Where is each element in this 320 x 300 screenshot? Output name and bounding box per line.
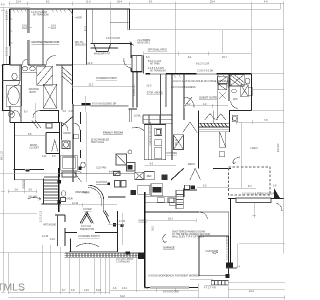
svg-text:+ HDR: + HDR — [65, 197, 73, 200]
svg-text:11-0: 11-0 — [86, 1, 91, 4]
kitchen lower counter band — [144, 197, 184, 203]
corner blobs — [226, 263, 233, 268]
patio dim line — [144, 52, 252, 54]
long site lines left — [0, 172, 59, 174]
island dim — [144, 164, 176, 166]
svg-text:4-1/2 X 4-1/2 W/ 4X4 SOLID NO: 4-1/2 X 4-1/2 W/ 4X4 SOLID NO CHASE WATE… — [173, 80, 231, 83]
svg-text:13-4: 13-4 — [122, 287, 127, 290]
tub — [8, 87, 19, 105]
svg-text:TRAY CLNG: TRAY CLNG — [91, 141, 105, 144]
svg-text:MASTER BEDROOM: MASTER BEDROOM — [32, 40, 60, 44]
svg-text:25-4: 25-4 — [210, 1, 215, 4]
interior wall bedroom/entry — [27, 9, 29, 33]
svg-text:COMPLETE ISLD W/ SINK: COMPLETE ISLD W/ SINK — [150, 121, 152, 146]
svg-text:5-10 1/2: 5-10 1/2 — [6, 11, 9, 20]
svg-text:W/ TRANSOM: W/ TRANSOM — [33, 13, 49, 16]
shelf marks top — [32, 120, 52, 128]
closet shelf hatch next to porch wall — [62, 65, 73, 110]
svg-text:21-4: 21-4 — [16, 1, 21, 4]
guest bath — [230, 75, 252, 97]
guest closet hatch band — [199, 123, 229, 127]
hall arcs — [60, 123, 68, 131]
mid counters — [135, 172, 144, 179]
svg-text:7-11: 7-11 — [144, 287, 149, 290]
svg-text:4-9 R/O: 4-9 R/O — [134, 89, 136, 96]
island — [144, 125, 165, 160]
svg-text:21-0: 21-0 — [88, 62, 93, 65]
svg-text:GARAGE: GARAGE — [163, 246, 175, 250]
left exterior wall with window — [9, 9, 11, 46]
svg-text:COVERED PORCH: COVERED PORCH — [96, 77, 117, 80]
wall segment to porch corner — [118, 43, 132, 45]
steps hatch — [67, 253, 142, 257]
linen hatch box — [37, 66, 53, 85]
svg-text:2-8 X 5-0 DH: 2-8 X 5-0 DH — [106, 37, 120, 40]
top wall with windows — [146, 73, 150, 75]
svg-text:2 X 3-0 X 6-8 FRENCH DOOR: 2 X 3-0 X 6-8 FRENCH DOOR — [242, 192, 275, 195]
svg-text:12-10: 12-10 — [72, 202, 79, 205]
shower hatch box — [43, 84, 57, 108]
svg-text:18-1: 18-1 — [168, 218, 173, 221]
left vertical dimension lines — [1, 7, 9, 292]
bedroom south wall with door gaps — [22, 59, 28, 65]
svg-text:ART NICHE: ART NICHE — [43, 223, 56, 226]
angled wall to garage — [171, 168, 184, 180]
sitting/porch divider dim — [73, 64, 131, 66]
top exterior wall — [9, 8, 130, 10]
svg-text:5 1/2 X 13: 5 1/2 X 13 — [40, 210, 43, 222]
svg-text:MASONRY F.P.: MASONRY F.P. — [94, 52, 111, 55]
svg-text:8-8 R/O: 8-8 R/O — [277, 143, 280, 152]
diagonal door — [62, 117, 73, 126]
svg-text:W/ TRANSOM: W/ TRANSOM — [150, 70, 166, 73]
left walls — [171, 74, 173, 160]
svg-text:W.I.C.: W.I.C. — [175, 138, 178, 145]
svg-text:10-8: 10-8 — [51, 27, 56, 30]
svg-text:4 T 2 T 4 R: 4 T 2 T 4 R — [204, 286, 216, 289]
svg-text:FOYER: FOYER — [83, 208, 92, 211]
steps right of garage — [211, 281, 228, 285]
dashed optional rect — [229, 167, 271, 195]
svg-text:2-10: 2-10 — [69, 110, 74, 113]
svg-text:24-2: 24-2 — [249, 290, 254, 293]
svg-text:2-8 X 5-0 DH EGRESS: 2-8 X 5-0 DH EGRESS — [171, 86, 196, 89]
svg-text:9-0 X 8-0 OHD: 9-0 X 8-0 OHD — [163, 290, 179, 293]
front door bay (peak) — [80, 212, 93, 224]
svg-text:CLG FAN: CLG FAN — [96, 167, 107, 170]
svg-text:10-8: 10-8 — [22, 27, 27, 30]
svg-text:DINING: DINING — [139, 219, 148, 222]
wall left of kitchen passage — [108, 196, 126, 198]
svg-text:OPEN RAIL: OPEN RAIL — [75, 191, 88, 194]
jog to bath outer wall — [3, 64, 10, 66]
svg-text:16-7: 16-7 — [222, 56, 227, 59]
svg-text:21-2: 21-2 — [89, 84, 94, 87]
svg-text:4-11: 4-11 — [42, 155, 47, 158]
interior line — [42, 9, 44, 65]
svg-text:16-2: 16-2 — [152, 226, 155, 231]
side closet — [46, 132, 60, 134]
porch south: sliding door — [73, 104, 82, 106]
svg-text:W/ TRIM: W/ TRIM — [150, 62, 159, 65]
svg-text:COVERED PORCH: COVERED PORCH — [78, 235, 99, 238]
svg-text:OPTIONAL PATIO: OPTIONAL PATIO — [148, 49, 168, 52]
butler cabinets — [115, 181, 121, 188]
svg-text:2-10: 2-10 — [84, 289, 89, 292]
svg-text:TMLS: TMLS — [0, 282, 25, 294]
svg-text:21-0: 21-0 — [147, 84, 152, 87]
top dimension line — [9, 1, 283, 6]
vertical droppers — [8, 245, 284, 300]
wardrobe triangles — [205, 114, 216, 120]
closet dim — [15, 135, 45, 137]
angled bay windows right of foyer — [103, 210, 110, 223]
powder fixtures — [81, 162, 86, 168]
svg-text:18-4: 18-4 — [117, 1, 122, 4]
svg-text:6-10: 6-10 — [96, 289, 101, 292]
top counter band — [143, 115, 172, 124]
master suite east wall — [72, 9, 74, 104]
garage bottom wall / door — [145, 286, 150, 288]
guest bath left wall — [228, 74, 230, 101]
svg-text:HD W SPLY: HD W SPLY — [137, 42, 150, 45]
WIC shelving — [174, 135, 184, 150]
door arc at top of east wall — [67, 9, 73, 16]
svg-text:2 2-8 X 5-0 DH: 2 2-8 X 5-0 DH — [197, 70, 213, 73]
tub platform — [6, 85, 21, 106]
svg-text:+ HDR: + HDR — [75, 17, 83, 20]
closet column — [216, 74, 218, 120]
svg-text:A GOOD WORKBENCH FOR REBAT WKR: A GOOD WORKBENCH FOR REBAT WKRNDS — [148, 274, 200, 277]
toilet — [12, 73, 17, 80]
fireplace — [91, 43, 118, 45]
svg-text:RISERS: RISERS — [22, 179, 25, 188]
pantry shelf stack — [169, 190, 183, 209]
secondary top dim — [0, 6, 30, 8]
bath south wall — [3, 110, 10, 112]
svg-text:21-7: 21-7 — [84, 26, 87, 31]
guest dims — [184, 105, 228, 107]
porch east wall w/ chase — [130, 44, 132, 59]
svg-text:4 1/2 X 11 1/2 CONCRETE: 4 1/2 X 11 1/2 CONCRETE — [226, 235, 228, 260]
svg-text:SHELVES: SHELVES — [75, 44, 86, 47]
french door wall — [228, 187, 256, 189]
svg-text:CLOSET: CLOSET — [29, 147, 39, 150]
svg-text:21-0 1/2: 21-0 1/2 — [6, 47, 9, 56]
svg-text:REF: REF — [147, 175, 152, 178]
svg-text:STOR. ABOVE: STOR. ABOVE — [147, 91, 163, 94]
shelves right — [219, 132, 225, 148]
svg-text:GUEST SUITE: GUEST SUITE — [199, 96, 217, 100]
right lower site lines — [239, 243, 285, 245]
svg-text:LANAI: LANAI — [251, 147, 258, 150]
stair dims — [8, 191, 36, 193]
inner cart bay — [199, 236, 229, 276]
svg-text:FRENCH DR: FRENCH DR — [80, 228, 94, 231]
svg-text:10 WL: 10 WL — [134, 114, 142, 117]
svg-text:BATH: BATH — [30, 91, 36, 94]
svg-text:60-1 1/2: 60-1 1/2 — [1, 151, 4, 160]
svg-text:LNDRY: LNDRY — [63, 132, 71, 135]
svg-text:8-1/2 X 11 R: 8-1/2 X 11 R — [196, 62, 210, 65]
svg-text:MECH: MECH — [188, 163, 195, 166]
svg-text:2 X RAILING: 2 X RAILING — [116, 261, 130, 264]
svg-text:6-0 X 6-8 SLIDING DR: 6-0 X 6-8 SLIDING DR — [92, 103, 116, 106]
svg-text:WIC: WIC — [233, 98, 238, 101]
svg-text:FAMILY ROOM: FAMILY ROOM — [103, 130, 123, 134]
svg-text:31-0: 31-0 — [120, 295, 125, 298]
svg-text:4x4 POST: 4x4 POST — [109, 171, 121, 174]
svg-text:4x4 POST: 4x4 POST — [96, 181, 108, 184]
svg-text:12-10: 12-10 — [42, 235, 49, 238]
vanity wall — [21, 65, 23, 106]
guest bottom wall — [229, 109, 252, 111]
svg-text:2-10: 2-10 — [50, 238, 55, 241]
